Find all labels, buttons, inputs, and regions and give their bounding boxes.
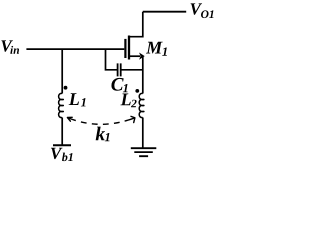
arrow at source of M1	[139, 53, 145, 60]
wire source down to L2	[142, 56, 144, 93]
terminal bar Vb1	[53, 144, 71, 146]
ground symbol	[131, 148, 157, 156]
wire L2 bottom to ground	[142, 118, 144, 149]
wire input from Vin to gate	[26, 48, 124, 50]
wire output to VO1	[143, 11, 186, 13]
wire C1 to source node	[121, 69, 143, 71]
transistor M1 channel bar	[128, 36, 130, 60]
label L1	[69, 93, 86, 106]
wire source	[129, 55, 140, 57]
label k1	[96, 127, 110, 142]
polarity dot of L2	[135, 89, 139, 93]
label Vb1	[51, 148, 73, 161]
label L2	[120, 94, 136, 108]
transistor M1 gate bar	[124, 39, 126, 58]
inductor L1 coil	[59, 93, 64, 117]
inductor L2 coil	[139, 93, 144, 117]
label C1	[111, 78, 127, 92]
node VO1 label	[191, 3, 214, 18]
arrowhead k1 left	[67, 117, 72, 121]
node Vin label	[1, 40, 19, 53]
wire L1 bottom to Vb1 terminal	[61, 118, 63, 146]
label M1	[146, 42, 167, 56]
capacitor C1 plates	[118, 63, 121, 76]
polarity dot of L1	[64, 86, 68, 90]
arrowhead k1 right	[131, 116, 135, 122]
wire gate tap down to C1	[106, 49, 118, 70]
wire branch down to L1	[61, 49, 63, 94]
coupling arc k1 dashed	[67, 118, 135, 125]
wire drain up to output	[129, 12, 143, 37]
